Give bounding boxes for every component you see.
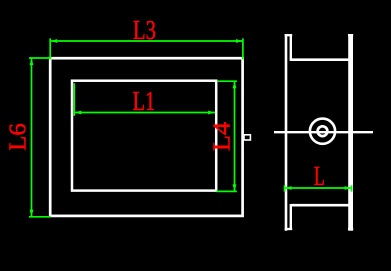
side view top web [291, 58, 349, 61]
side view left flange bottom cap [285, 228, 293, 230]
side view bottom web [291, 204, 349, 207]
side view right flange bar [348, 34, 353, 231]
hub inner circle [318, 126, 328, 136]
inner frame (front view) [72, 81, 216, 191]
outer frame (front view) [50, 58, 242, 216]
dimension L1 arrows [74, 111, 215, 115]
side view left flange top cap [285, 34, 293, 36]
side view left flange outer line [285, 34, 288, 231]
dimension L1 lines [74, 83, 215, 116]
dimension L lines [285, 185, 352, 191]
hub outer circle [310, 119, 335, 144]
dimension L6 arrows [30, 58, 34, 217]
dimension L3 arrows [50, 39, 243, 43]
dimension L arrows [285, 186, 352, 190]
side view right flange top cap [348, 34, 353, 36]
side view left flange inner line lower [290, 204, 292, 229]
dimension L3 lines [50, 38, 243, 59]
side view right flange bottom cap [348, 228, 353, 230]
svg-text:L4: L4 [210, 122, 236, 152]
svg-text:L1: L1 [133, 86, 156, 116]
dimension L6 lines [29, 58, 51, 217]
centerline through hub [274, 131, 373, 133]
dimension L4 lines [217, 81, 237, 191]
side view left flange inner line upper [290, 35, 292, 61]
dimension L4 arrows [233, 81, 237, 191]
svg-text:L: L [314, 161, 325, 191]
svg-text:L3: L3 [133, 15, 156, 45]
svg-text:L6: L6 [5, 123, 31, 151]
side tab on right edge [244, 135, 250, 140]
